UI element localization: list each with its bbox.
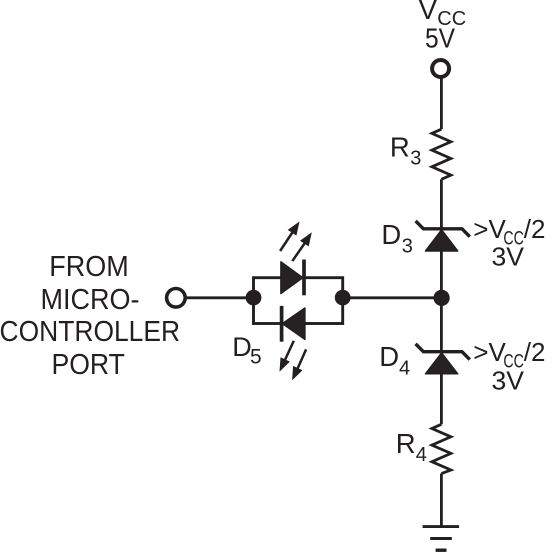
value label >VCC/2 3V (for D4) bbox=[473, 337, 545, 396]
LED D5 bottom light arrow 1 bbox=[280, 341, 294, 372]
svg-text:4: 4 bbox=[399, 358, 410, 380]
label D3 bbox=[381, 219, 412, 257]
value label >VCC/2 3V (for D3) bbox=[473, 214, 545, 272]
wire R4 to ground bbox=[440, 474, 443, 527]
node C (main junction dot) bbox=[434, 290, 450, 306]
wire D3 to node C to D4 bbox=[440, 251, 443, 352]
wire D4 to R4 bbox=[440, 374, 443, 425]
svg-text:R: R bbox=[390, 132, 410, 163]
resistor R3 bbox=[432, 129, 451, 179]
label VCC bbox=[419, 0, 467, 30]
node B (right junction dot) bbox=[335, 290, 351, 306]
svg-text:D: D bbox=[232, 332, 252, 362]
node A (left junction dot) bbox=[246, 290, 262, 306]
svg-text:5V: 5V bbox=[425, 23, 456, 54]
terminal (input port, open circle) bbox=[167, 289, 186, 308]
resistor R4 bbox=[432, 424, 451, 473]
svg-text:3: 3 bbox=[402, 235, 413, 257]
label D5 bbox=[232, 332, 261, 368]
svg-text:FROM: FROM bbox=[49, 251, 129, 283]
LED D5 top light arrow 2 bbox=[292, 232, 312, 261]
svg-text:CONTROLLER: CONTROLLER bbox=[0, 316, 180, 348]
svg-text:5: 5 bbox=[250, 345, 262, 368]
svg-text:R: R bbox=[396, 428, 416, 459]
svg-text:>V: >V bbox=[473, 214, 506, 244]
svg-text:4: 4 bbox=[416, 444, 427, 466]
wire VCC terminal to R3 bbox=[440, 78, 443, 129]
label R4 bbox=[396, 428, 427, 466]
svg-text:V: V bbox=[419, 0, 438, 25]
wire node B to node C bbox=[343, 296, 442, 299]
svg-text:/2: /2 bbox=[524, 214, 546, 244]
wire R3 to D3 bbox=[440, 179, 443, 229]
zener diode D3 bbox=[416, 221, 470, 251]
svg-text:>V: >V bbox=[473, 337, 506, 367]
svg-text:3V: 3V bbox=[492, 366, 525, 396]
svg-text:/2: /2 bbox=[524, 337, 546, 367]
svg-text:D: D bbox=[379, 341, 399, 372]
svg-text:3V: 3V bbox=[492, 242, 525, 272]
label D4 bbox=[379, 341, 410, 380]
LED D5 top (anode left, pointing right) bbox=[281, 260, 304, 296]
LED D5 bottom (anode right, pointing left) bbox=[282, 306, 305, 342]
svg-text:MICRO-: MICRO- bbox=[41, 284, 140, 316]
LED D5 top light arrow 1 bbox=[280, 222, 299, 252]
ground bbox=[423, 527, 460, 551]
terminal VCC (open circle) bbox=[432, 60, 449, 77]
svg-text:D: D bbox=[381, 219, 401, 250]
svg-text:3: 3 bbox=[410, 148, 421, 170]
label FROM MICRO-CONTROLLER PORT bbox=[0, 251, 180, 381]
label R3 bbox=[390, 132, 422, 170]
zener diode D4 bbox=[416, 344, 470, 374]
wire LED loop rectangle bbox=[254, 278, 343, 324]
wire input terminal to node A bbox=[186, 296, 254, 299]
LED D5 bottom light arrow 2 bbox=[292, 349, 306, 380]
svg-text:PORT: PORT bbox=[51, 349, 125, 381]
